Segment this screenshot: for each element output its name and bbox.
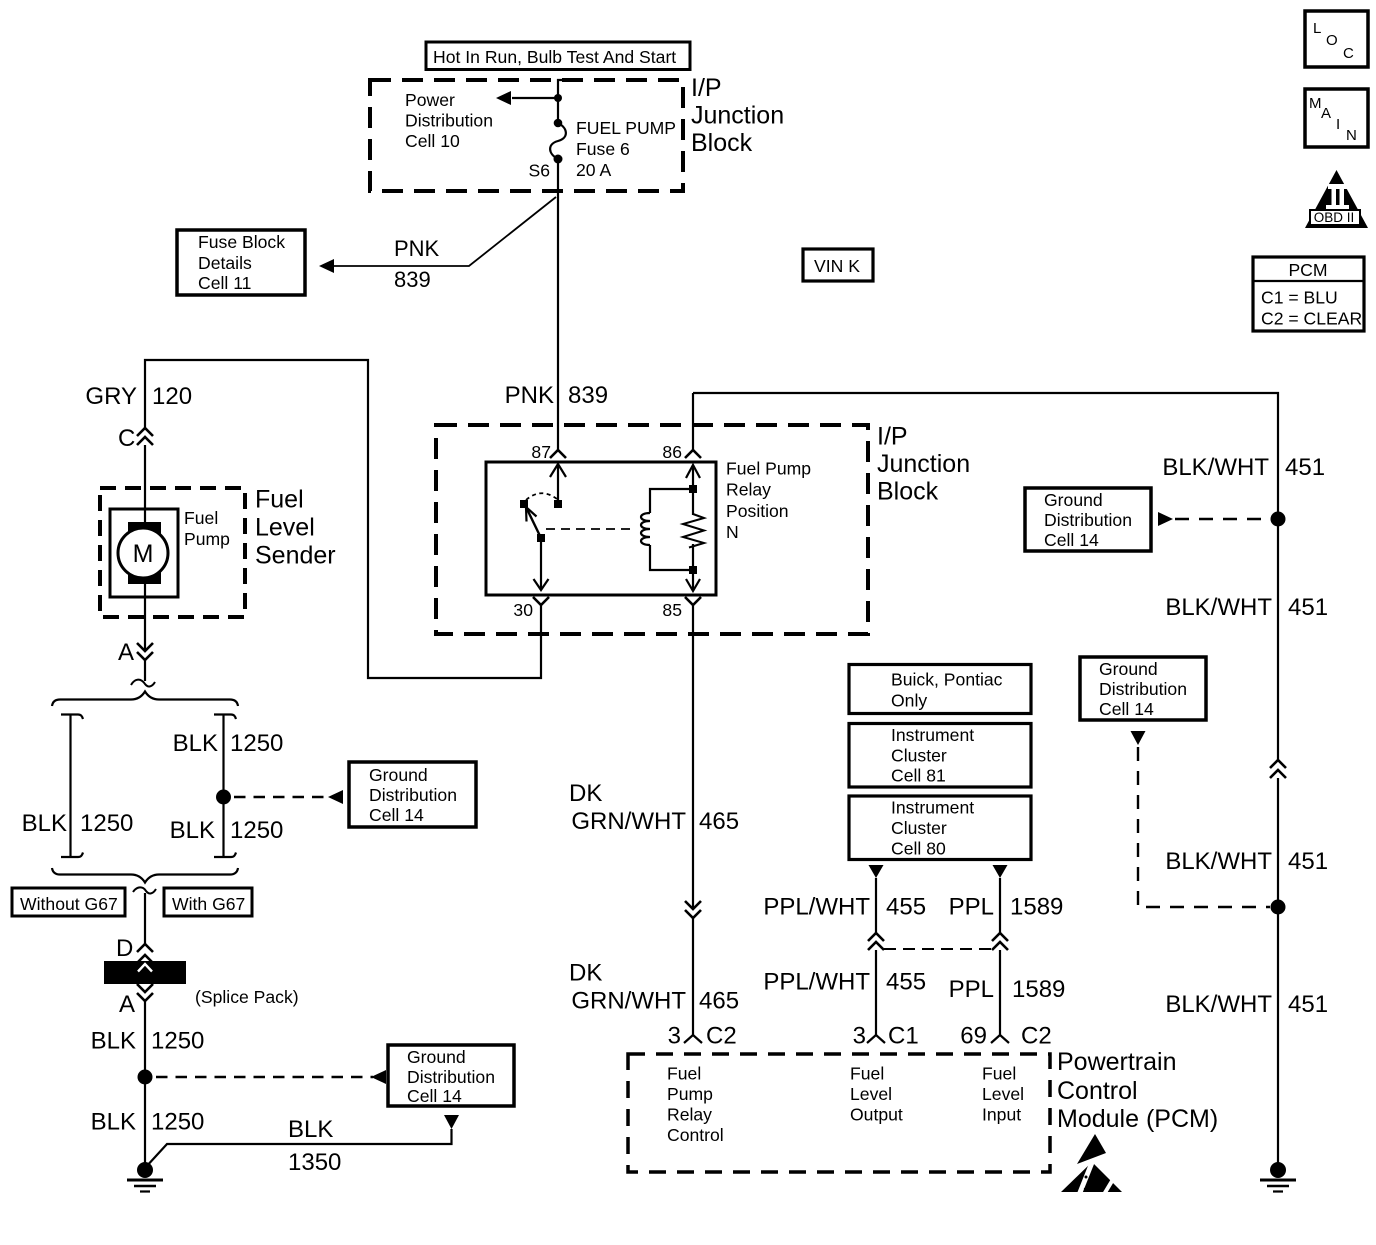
svg-text:Cell 81: Cell 81 <box>891 766 946 786</box>
svg-text:451: 451 <box>1288 594 1328 621</box>
svg-text:PPL/WHT: PPL/WHT <box>763 894 870 921</box>
svg-text:1589: 1589 <box>1012 976 1065 1003</box>
svg-text:Cell 80: Cell 80 <box>891 839 946 859</box>
svg-text:Level: Level <box>255 514 315 542</box>
svg-text:Fuel: Fuel <box>982 1064 1016 1084</box>
svg-text:69: 69 <box>960 1023 987 1050</box>
svg-text:1589: 1589 <box>1010 894 1063 921</box>
svg-text:VIN K: VIN K <box>814 256 860 276</box>
svg-text:Ground: Ground <box>369 765 428 785</box>
svg-text:I/P: I/P <box>691 74 722 102</box>
svg-text:1350: 1350 <box>288 1149 341 1176</box>
svg-text:Power: Power <box>405 90 455 110</box>
svg-text:Relay: Relay <box>726 480 771 500</box>
svg-text:30: 30 <box>513 600 533 620</box>
svg-text:Level: Level <box>850 1084 892 1104</box>
svg-text:PPL: PPL <box>949 976 994 1003</box>
svg-text:Cell 14: Cell 14 <box>407 1086 462 1106</box>
svg-text:BLK: BLK <box>91 1028 136 1055</box>
svg-text:BLK/WHT: BLK/WHT <box>1165 848 1272 875</box>
svg-text:Input: Input <box>982 1105 1021 1125</box>
svg-text:Sender: Sender <box>255 542 336 570</box>
svg-text:BLK/WHT: BLK/WHT <box>1165 991 1272 1018</box>
svg-text:Hot In Run, Bulb Test And Star: Hot In Run, Bulb Test And Start <box>433 47 676 67</box>
svg-text:Cell 14: Cell 14 <box>1099 699 1154 719</box>
svg-text:BLK/WHT: BLK/WHT <box>1162 454 1269 481</box>
svg-text:PPL/WHT: PPL/WHT <box>763 969 870 996</box>
svg-text:Junction: Junction <box>877 450 970 478</box>
svg-text:1250: 1250 <box>151 1109 204 1136</box>
svg-text:Buick, Pontiac: Buick, Pontiac <box>891 670 1003 690</box>
svg-text:Pump: Pump <box>184 529 230 549</box>
svg-text:BLK: BLK <box>170 817 215 844</box>
svg-text:85: 85 <box>662 600 682 620</box>
svg-text:Cluster: Cluster <box>891 818 947 838</box>
svg-text:C1: C1 <box>888 1023 919 1050</box>
svg-text:GRN/WHT: GRN/WHT <box>571 988 686 1015</box>
svg-text:Fuel: Fuel <box>850 1064 884 1084</box>
svg-text:455: 455 <box>886 969 926 996</box>
svg-text:Distribution: Distribution <box>1044 510 1132 530</box>
svg-text:Relay: Relay <box>667 1105 712 1125</box>
svg-text:GRN/WHT: GRN/WHT <box>571 808 686 835</box>
svg-text:I: I <box>1336 116 1340 133</box>
svg-text:Distribution: Distribution <box>369 785 457 805</box>
svg-text:1250: 1250 <box>151 1028 204 1055</box>
svg-text:Fuel Pump: Fuel Pump <box>726 459 811 479</box>
svg-text:455: 455 <box>886 894 926 921</box>
svg-text:BLK/WHT: BLK/WHT <box>1165 594 1272 621</box>
svg-text:465: 465 <box>699 808 739 835</box>
svg-text:3: 3 <box>853 1023 866 1050</box>
svg-text:D: D <box>116 935 133 962</box>
svg-text:Without G67: Without G67 <box>20 894 118 914</box>
svg-text:Ground: Ground <box>1099 659 1158 679</box>
svg-text:BLK: BLK <box>173 730 218 757</box>
svg-text:I/P: I/P <box>877 423 908 451</box>
svg-text:A: A <box>1321 105 1331 122</box>
svg-text:Fuse Block: Fuse Block <box>198 232 285 252</box>
svg-text:Fuse 6: Fuse 6 <box>576 139 630 159</box>
svg-text:Pump: Pump <box>667 1084 713 1104</box>
svg-text:N: N <box>1346 127 1357 144</box>
svg-text:1250: 1250 <box>230 730 283 757</box>
svg-text:Cell 11: Cell 11 <box>198 273 251 293</box>
svg-text:120: 120 <box>152 383 192 410</box>
svg-text:Position: Position <box>726 501 789 521</box>
svg-text:Ground: Ground <box>407 1047 466 1067</box>
svg-text:C1 = BLU: C1 = BLU <box>1261 288 1338 308</box>
svg-text:Cell 14: Cell 14 <box>369 805 424 825</box>
svg-text:Distribution: Distribution <box>1099 679 1187 699</box>
svg-text:Block: Block <box>877 478 939 506</box>
svg-text:DK: DK <box>569 960 602 987</box>
svg-text:Fuel: Fuel <box>667 1064 701 1084</box>
svg-text:Junction: Junction <box>691 102 784 130</box>
svg-text:Output: Output <box>850 1105 903 1125</box>
svg-text:L: L <box>1313 20 1321 37</box>
svg-text:O: O <box>1326 32 1338 49</box>
svg-text:839: 839 <box>568 382 608 409</box>
svg-text:GRY: GRY <box>85 383 137 410</box>
svg-text:M: M <box>133 540 154 568</box>
svg-text:451: 451 <box>1288 991 1328 1018</box>
svg-text:PCM: PCM <box>1288 260 1327 280</box>
svg-text:PNK: PNK <box>505 382 554 409</box>
svg-text:Powertrain: Powertrain <box>1057 1048 1177 1076</box>
svg-text:Instrument: Instrument <box>891 725 974 745</box>
svg-text:87: 87 <box>531 442 551 462</box>
svg-text:C: C <box>118 425 135 452</box>
svg-text:3: 3 <box>668 1023 681 1050</box>
svg-text:C2 = CLEAR: C2 = CLEAR <box>1261 309 1362 329</box>
svg-text:Control: Control <box>667 1125 724 1145</box>
svg-text:Cluster: Cluster <box>891 746 947 766</box>
svg-text:Level: Level <box>982 1084 1024 1104</box>
svg-text:BLK: BLK <box>91 1109 136 1136</box>
svg-text:N: N <box>726 522 739 542</box>
svg-text:Control: Control <box>1057 1077 1138 1105</box>
svg-text:PNK: PNK <box>394 236 440 261</box>
svg-text:Fuel: Fuel <box>255 486 304 514</box>
svg-text:C2: C2 <box>1021 1023 1052 1050</box>
svg-text:Fuel: Fuel <box>184 508 218 528</box>
svg-text:465: 465 <box>699 988 739 1015</box>
svg-text:C2: C2 <box>706 1023 737 1050</box>
svg-text:S6: S6 <box>528 161 550 181</box>
svg-text:20 A: 20 A <box>576 160 611 180</box>
svg-text:C: C <box>1343 45 1354 62</box>
svg-text:Details: Details <box>198 253 252 273</box>
svg-text:Only: Only <box>891 691 927 711</box>
svg-text:451: 451 <box>1288 848 1328 875</box>
svg-text:M: M <box>1309 95 1322 112</box>
svg-text:FUEL PUMP: FUEL PUMP <box>576 118 676 138</box>
svg-text:OBD II: OBD II <box>1314 210 1355 225</box>
svg-text:1250: 1250 <box>80 810 133 837</box>
svg-text:Distribution: Distribution <box>405 111 493 131</box>
svg-text:A: A <box>118 639 134 666</box>
svg-text:839: 839 <box>394 267 431 292</box>
svg-text:Module (PCM): Module (PCM) <box>1057 1105 1218 1133</box>
svg-text:1250: 1250 <box>230 817 283 844</box>
svg-text:Distribution: Distribution <box>407 1067 495 1087</box>
svg-text:BLK: BLK <box>288 1116 333 1143</box>
svg-text:Block: Block <box>691 129 753 157</box>
svg-text:Ground: Ground <box>1044 490 1103 510</box>
svg-text:Cell 10: Cell 10 <box>405 131 460 151</box>
svg-text:(Splice Pack): (Splice Pack) <box>195 987 299 1007</box>
svg-text:A: A <box>119 991 135 1018</box>
svg-text:Cell 14: Cell 14 <box>1044 530 1099 550</box>
svg-text:BLK: BLK <box>22 810 67 837</box>
svg-text:PPL: PPL <box>949 894 994 921</box>
svg-text:451: 451 <box>1285 454 1325 481</box>
svg-text:DK: DK <box>569 780 602 807</box>
svg-text:Instrument: Instrument <box>891 798 974 818</box>
svg-text:With G67: With G67 <box>172 894 245 914</box>
svg-text:86: 86 <box>662 442 682 462</box>
